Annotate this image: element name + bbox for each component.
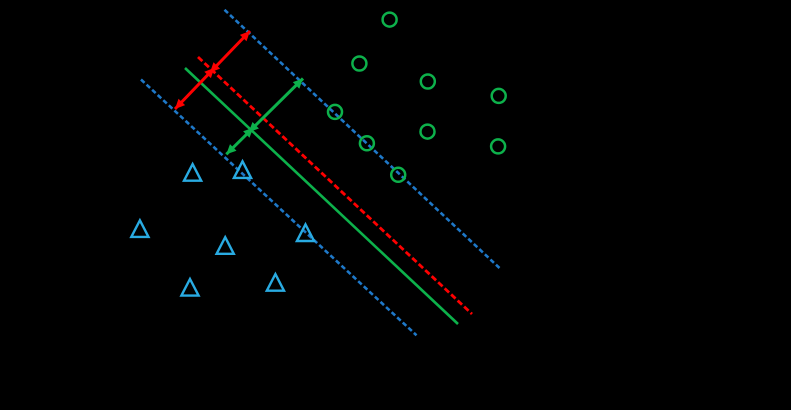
red arrowhead middle-lower — [204, 68, 214, 78]
red arrowhead middle-upper — [210, 62, 220, 72]
alternative boundary (red dashed) — [198, 57, 472, 314]
triangle 6 — [181, 279, 198, 296]
class -1 data points (blue triangles) — [131, 161, 314, 295]
green arrowhead top — [293, 79, 303, 89]
circle 8 — [491, 139, 505, 153]
circle 5 (support vector) — [328, 105, 342, 119]
triangle 5 (support vector) — [297, 224, 314, 241]
class +1 data points (green circles) — [328, 13, 506, 182]
circle 3 — [421, 75, 435, 89]
triangle 3 — [131, 220, 148, 237]
triangle 7 — [267, 274, 284, 291]
red arrowhead top — [240, 31, 250, 41]
circle 9 (support vector) — [391, 168, 405, 182]
upper margin line (blue dashed) — [225, 10, 501, 269]
circle 6 (support vector) — [360, 136, 374, 150]
red arrowhead bottom — [175, 99, 185, 109]
green arrowhead bottom — [226, 144, 236, 154]
circle 4 — [492, 89, 506, 103]
triangle 1 — [184, 164, 201, 181]
lower margin line (blue dashed) — [141, 80, 417, 336]
red margin arrow upper segment shaft — [210, 31, 250, 73]
triangle 4 — [217, 237, 234, 254]
triangle 2 (support vector) — [234, 161, 251, 178]
red margin arrow lower segment shaft — [175, 68, 214, 109]
green arrowhead middle-lower — [243, 128, 253, 138]
circle 7 — [421, 125, 435, 139]
green margin arrow upper segment shaft — [249, 79, 303, 133]
green arrowhead middle-upper — [249, 122, 259, 132]
green margin arrow lower segment shaft — [226, 128, 253, 155]
decision boundary (green solid) — [185, 68, 458, 324]
circle 1 — [383, 13, 397, 27]
circle 2 — [352, 57, 366, 71]
